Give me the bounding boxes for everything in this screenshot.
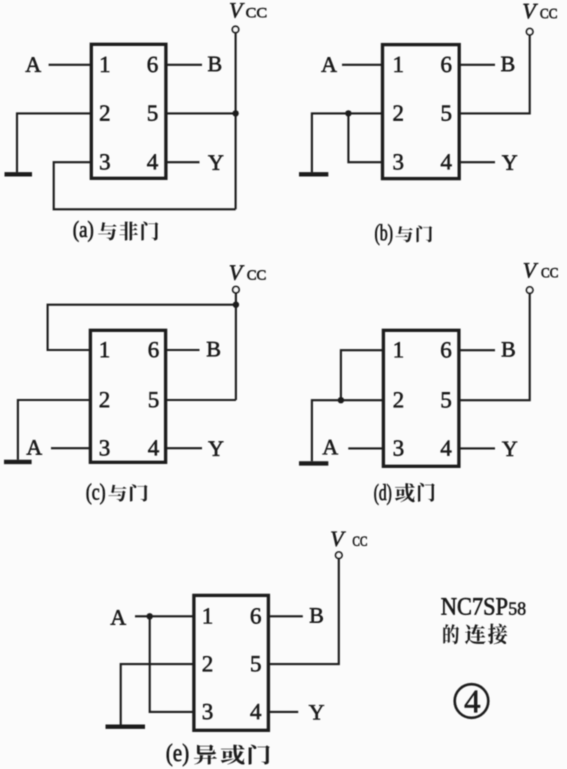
- Vcc terminal circle (d): [527, 287, 533, 293]
- wire pin6 U2 to B: [459, 64, 495, 66]
- wire pin4 U2 to Y: [459, 161, 495, 163]
- node label B (c): [207, 342, 220, 357]
- wire pin2 U2 to ground: [312, 113, 383, 172]
- node label B (e): [310, 608, 323, 623]
- junction dot pin5/Vcc (a): [232, 110, 238, 116]
- wire pin6 U4 to B: [459, 349, 495, 351]
- wire pin5 U4 to Vcc: [459, 293, 530, 400]
- IC U3 (c) 6-pin body: [90, 330, 165, 462]
- wire pin5 U5 to Vcc: [268, 558, 338, 664]
- ground symbol GND1: [5, 172, 33, 176]
- Vcc label (d): [524, 263, 558, 278]
- wire pin6 U5 to B: [268, 615, 302, 617]
- wire pin4 U3 to Y: [166, 447, 202, 449]
- title 的连接: [443, 624, 507, 645]
- wire pin1 U3 loop to Vcc rail: [48, 305, 236, 350]
- wire input A to pin1 U2: [342, 64, 383, 66]
- wire input A to pin1 U1: [49, 64, 92, 66]
- node label A (c): [27, 440, 43, 455]
- node label Y (b): [502, 155, 517, 169]
- wire A branch to pin3 U5: [150, 616, 194, 712]
- caption (b) latin: [375, 224, 392, 245]
- caption (e) latin: [167, 744, 189, 767]
- wire pin2 U5 to ground: [121, 664, 194, 724]
- ground symbol GND3: [4, 460, 32, 464]
- Vcc label (e): [331, 532, 367, 547]
- node label A (b): [321, 57, 337, 72]
- caption (a) NAND gate 与非门: [98, 222, 158, 241]
- wire input A to pin3 U4: [348, 447, 383, 449]
- caption (d) latin: [374, 484, 391, 505]
- wire input A to pin3 U3: [51, 447, 90, 449]
- IC U1 (a) 6-pin body: [91, 44, 166, 178]
- wire pin4 U5 to Y: [268, 711, 298, 713]
- wire Vcc rail vertical (a): [235, 33, 237, 210]
- figure number digit 4: [465, 691, 480, 713]
- wire pin2 U3 to ground: [18, 400, 91, 460]
- IC U4 (d) 6-pin body: [383, 330, 459, 466]
- wire pin6 U1 to B: [166, 64, 202, 66]
- Vcc label (c): [230, 265, 266, 280]
- caption (c) AND gate 与门: [108, 484, 147, 501]
- pin numbers U4: [394, 342, 452, 456]
- Vcc label (a): [230, 3, 266, 18]
- wire pin5 U1 to Vcc rail: [166, 112, 236, 114]
- node label B (a): [208, 57, 221, 71]
- ground symbol GND2: [299, 172, 328, 176]
- wire pin4 U4 to Y: [459, 447, 495, 449]
- wire input A to pin1 U5: [135, 615, 194, 617]
- junction dot A/pin3 branch (e): [147, 613, 153, 619]
- caption (a) latin: [74, 221, 93, 242]
- wire pin1 U4 to pin2 net: [341, 350, 384, 400]
- Vcc terminal circle (a): [232, 26, 238, 32]
- junction dot pin2/pin3 (b): [345, 110, 351, 116]
- caption (b) AND gate 与门: [396, 226, 433, 243]
- caption (c) latin: [87, 484, 105, 505]
- IC U5 (e) 6-pin body: [194, 595, 269, 730]
- pin numbers U5: [203, 608, 261, 719]
- node label B (b): [501, 57, 514, 71]
- wire pin5 U2 to Vcc: [459, 35, 530, 114]
- wire pin2 U1 to ground: [17, 113, 91, 172]
- node label Y (e): [309, 705, 324, 719]
- IC U2 (b) 6-pin body: [383, 45, 460, 179]
- node label A (e): [111, 610, 127, 625]
- ground symbol GND5: [106, 725, 146, 729]
- figure number circled 4: [455, 684, 489, 718]
- pin numbers U3: [100, 342, 159, 456]
- wire pin2 U4 to ground: [312, 400, 384, 461]
- node label Y (a): [208, 155, 223, 169]
- node label Y (c): [208, 441, 223, 455]
- Vcc label (b): [523, 4, 556, 19]
- Vcc terminal circle (c): [233, 287, 239, 293]
- junction dot pin1/pin2 (d): [338, 397, 344, 403]
- caption (e) XOR gate 异或门: [194, 745, 270, 765]
- pin numbers U1: [100, 57, 158, 170]
- node label Y (d): [502, 442, 517, 456]
- part number NC7SP58: [441, 598, 525, 615]
- wire pin6 U3 to B: [166, 349, 200, 351]
- caption (d) OR gate 或门: [395, 483, 435, 502]
- Vcc terminal circle (e): [336, 552, 342, 558]
- wire pin4 U1 to Y: [166, 161, 200, 163]
- pin numbers U2: [394, 57, 452, 170]
- node label B (d): [502, 342, 515, 357]
- wire pin5 U3 to Vcc rail: [166, 399, 236, 401]
- wire Vcc rail vertical (c): [235, 293, 237, 400]
- junction dot pin1-loop/Vcc (c): [233, 302, 239, 308]
- node label A (a): [26, 57, 42, 72]
- Vcc terminal circle (b): [527, 29, 533, 35]
- ground symbol GND4: [299, 461, 328, 465]
- node label A (d): [323, 440, 339, 455]
- wire pin3 U2 to pin2 net: [348, 113, 382, 162]
- wire pin3 U1 loop to Vcc rail: [54, 162, 236, 209]
